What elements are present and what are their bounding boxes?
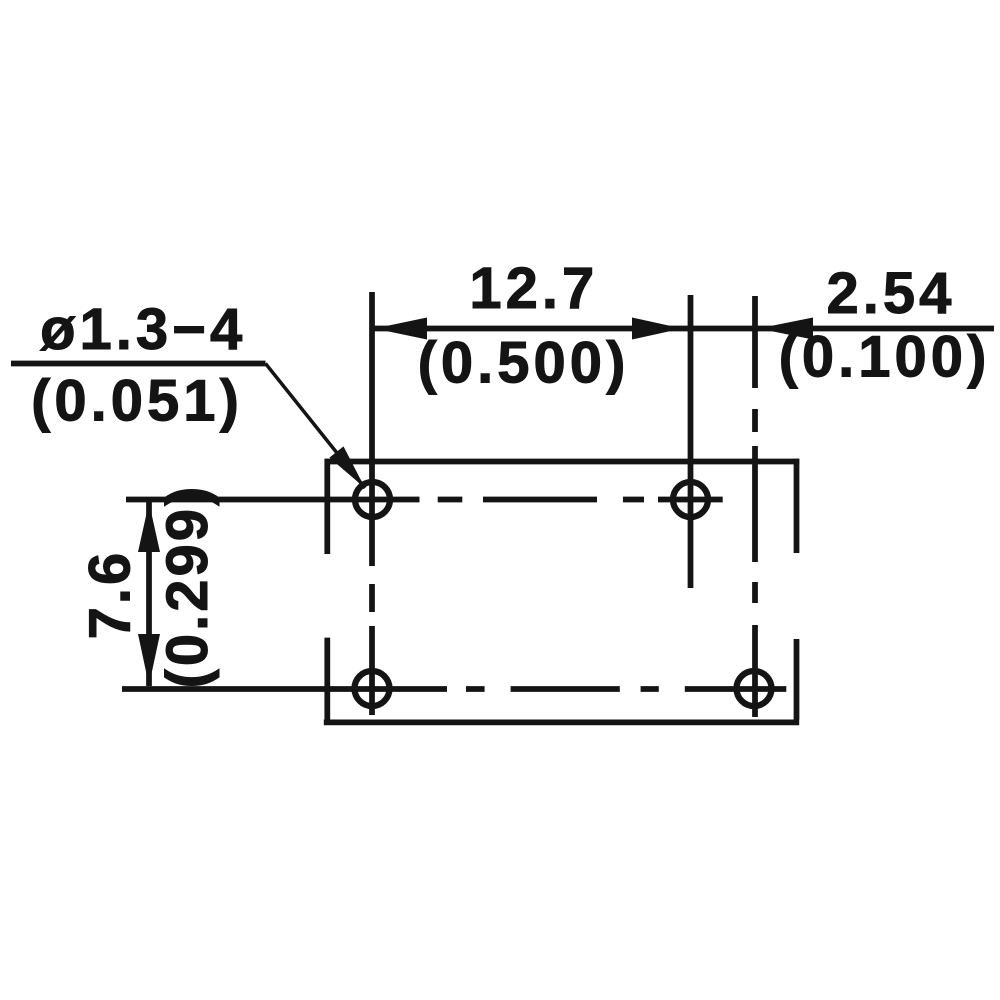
svg-text:(0.051): (0.051)	[31, 369, 243, 434]
svg-text:(0.500): (0.500)	[418, 331, 630, 396]
svg-text:7.6: 7.6	[78, 550, 143, 640]
svg-text:(0.299): (0.299)	[155, 484, 220, 689]
svg-text:12.7: 12.7	[469, 256, 598, 321]
svg-text:(0.100): (0.100)	[779, 325, 991, 390]
svg-text:2.54: 2.54	[827, 261, 956, 326]
svg-text:ø1.3−4: ø1.3−4	[40, 297, 246, 362]
